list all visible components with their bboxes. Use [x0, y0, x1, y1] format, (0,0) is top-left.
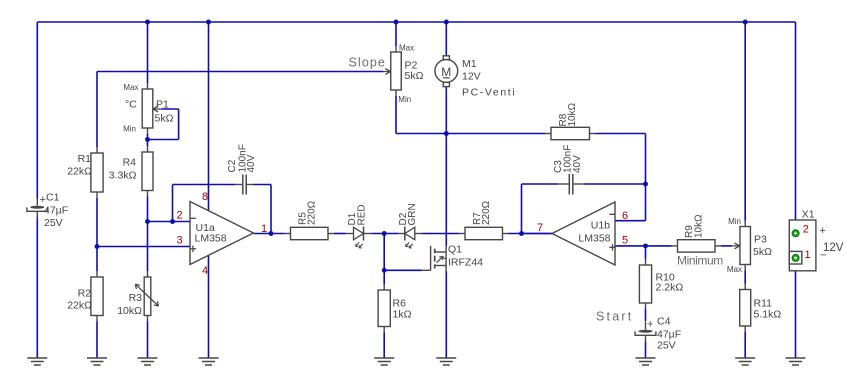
- resistor R6: [383, 284, 385, 290]
- wire Q1 source to ground: [445, 271, 447, 358]
- wire rail to P1: [147, 22, 149, 83]
- svg-text:M: M: [441, 65, 451, 79]
- ground R6: [374, 357, 394, 359]
- svg-text:8: 8: [202, 191, 208, 203]
- svg-text:1: 1: [805, 249, 811, 261]
- pin 2 X1 contact: [792, 230, 799, 237]
- resistor R1: [96, 147, 98, 153]
- svg-text:Start: Start: [596, 310, 633, 324]
- wire R9 to P3 wiper: [721, 245, 732, 247]
- junction rail-M1: [444, 20, 449, 25]
- svg-text:PC-Venti: PC-Venti: [462, 86, 516, 98]
- wire +12V top rail: [37, 21, 795, 23]
- capacitor C1: [36, 198, 38, 206]
- wire D2 to R7: [422, 233, 459, 235]
- svg-text:R4: R4: [123, 157, 137, 169]
- connector X1: [789, 220, 816, 271]
- wire rail to P3: [744, 22, 746, 221]
- wire R6 to ground: [383, 333, 385, 359]
- wire C3 left: [521, 184, 523, 234]
- svg-text:3.3kΩ: 3.3kΩ: [109, 170, 137, 182]
- junction P1 wiper-min: [145, 137, 150, 142]
- svg-text:1: 1: [261, 223, 267, 235]
- junction M1-R8 row: [444, 131, 449, 136]
- wire X1 pin1 to ground: [795, 261, 797, 358]
- wire gate node: [384, 269, 421, 271]
- svg-text:−: −: [820, 250, 826, 262]
- wire C3 right: [584, 183, 646, 185]
- resistor R3: [147, 271, 149, 277]
- ground R3: [138, 357, 158, 359]
- svg-text:GRN: GRN: [407, 203, 418, 225]
- resistor R7: [459, 233, 465, 235]
- resistor R4: [147, 146, 149, 152]
- svg-text:220Ω: 220Ω: [307, 200, 318, 225]
- svg-text:6: 6: [622, 210, 628, 222]
- svg-text:25V: 25V: [44, 217, 63, 229]
- diode D2: [399, 233, 405, 235]
- svg-text:+: +: [820, 225, 826, 237]
- svg-text:12V: 12V: [462, 70, 481, 82]
- svg-text:Slope: Slope: [349, 56, 386, 70]
- capacitor C2: [235, 184, 243, 186]
- svg-text:Min: Min: [123, 125, 136, 134]
- resistor R2: [96, 271, 98, 277]
- junction R4-R3 pin2 node: [145, 219, 150, 224]
- junction D1-D2 cathodes: [382, 231, 387, 236]
- ground X1: [786, 357, 806, 359]
- wire U1a pin2: [148, 221, 191, 223]
- svg-text:1kΩ: 1kΩ: [393, 309, 412, 321]
- junction gate node: [382, 268, 387, 273]
- svg-text:P3: P3: [754, 234, 767, 246]
- junction R1-R2 pin3 node: [95, 244, 100, 249]
- svg-text:5kΩ: 5kΩ: [753, 246, 772, 258]
- svg-text:LM358: LM358: [195, 233, 227, 245]
- transistor Q1: [422, 269, 431, 271]
- svg-text:5.1kΩ: 5.1kΩ: [754, 308, 782, 320]
- wire U1a pin3: [97, 246, 190, 248]
- wire P1 to R4: [147, 134, 149, 146]
- wire R4 to R3: [147, 197, 149, 272]
- ground C4: [636, 357, 656, 359]
- potentiometer P1: [147, 83, 149, 89]
- wire R7 to node: [509, 233, 553, 235]
- diode D1: [346, 233, 354, 235]
- junction U1a out-C2: [269, 231, 274, 236]
- svg-text:+: +: [647, 319, 653, 331]
- wire C1 column: [36, 22, 38, 199]
- resistor R10: [645, 259, 647, 265]
- wire U1a pin4 to ground: [208, 256, 210, 358]
- svg-text:47µF: 47µF: [44, 205, 68, 217]
- wire R8 to pin6 column: [596, 133, 646, 135]
- svg-text:C4: C4: [657, 316, 671, 328]
- ground C1: [27, 357, 47, 359]
- svg-text:5kΩ: 5kΩ: [405, 70, 424, 82]
- wire rail to M1: [445, 22, 447, 56]
- wire C2 feedback left: [172, 185, 174, 222]
- svg-text:U1b: U1b: [591, 220, 610, 232]
- svg-text:R3: R3: [129, 292, 143, 304]
- svg-text:2.2kΩ: 2.2kΩ: [656, 282, 684, 294]
- svg-text:X1: X1: [802, 209, 815, 221]
- junction C3-pin6: [643, 182, 648, 187]
- svg-text:40V: 40V: [572, 155, 583, 173]
- wire U1b pin6: [615, 220, 646, 222]
- resistor R11: [744, 284, 746, 290]
- wire R2 to ground: [96, 322, 98, 359]
- ground U1a pin4: [199, 357, 219, 359]
- svg-text:2: 2: [177, 210, 183, 222]
- junction rail-P2: [394, 20, 399, 25]
- svg-text:M1: M1: [462, 58, 477, 70]
- svg-text:C1: C1: [46, 192, 60, 204]
- wire node to R6: [383, 234, 385, 285]
- svg-text:Minimum: Minimum: [677, 254, 723, 268]
- svg-text:Max: Max: [123, 83, 138, 92]
- wire R5 to D1: [334, 233, 346, 235]
- potentiometer P3: [744, 221, 746, 227]
- svg-text:40V: 40V: [246, 154, 257, 172]
- svg-text:R2: R2: [78, 288, 92, 300]
- wire U1b pin5 to R9: [615, 245, 672, 247]
- wire P2 to R8 row: [395, 96, 397, 134]
- wire pin5 node to R10: [645, 246, 647, 259]
- ground R11: [735, 357, 755, 359]
- wire R1 to node A: [96, 198, 98, 271]
- svg-text:C2: C2: [227, 159, 238, 172]
- op-amp U1a: [190, 202, 254, 265]
- wire Slope net: [96, 72, 98, 148]
- motor M1: [443, 56, 449, 60]
- wire R11 to ground: [744, 332, 746, 358]
- wire rail to X1 pin2: [795, 22, 797, 230]
- wire U1a output: [254, 233, 285, 235]
- svg-text:IRFZ44: IRFZ44: [448, 257, 483, 269]
- junction pin5-R10: [643, 243, 648, 248]
- svg-text:5kΩ: 5kΩ: [155, 113, 174, 125]
- svg-text:220Ω: 220Ω: [481, 200, 492, 225]
- op-amp U1b: [552, 202, 615, 265]
- junction rail-pin8: [206, 20, 211, 25]
- wire D1 D2 node: [372, 233, 399, 235]
- svg-text:10kΩ: 10kΩ: [567, 102, 578, 126]
- junction pin2-C2: [170, 219, 175, 224]
- svg-text:LM358: LM358: [578, 233, 610, 245]
- wire P1 wiper loop: [162, 108, 179, 110]
- svg-text:RED: RED: [357, 204, 368, 225]
- svg-text:3: 3: [177, 235, 183, 247]
- ground R2: [87, 357, 107, 359]
- svg-text:4: 4: [202, 265, 208, 277]
- potentiometer P2: [395, 46, 397, 52]
- junction R7-C3-U1b: [519, 231, 524, 236]
- svg-text:5: 5: [622, 235, 628, 247]
- wire U1b output: [522, 233, 553, 235]
- svg-text:Min: Min: [728, 217, 741, 226]
- svg-text:7: 7: [537, 222, 543, 234]
- resistor R8: [545, 133, 551, 135]
- resistor R5: [285, 233, 291, 235]
- ground Q1 source: [436, 357, 456, 359]
- junction rail-P1: [145, 20, 150, 25]
- svg-text:10kΩ: 10kΩ: [117, 305, 142, 317]
- capacitor C3: [558, 183, 569, 185]
- svg-text:R1: R1: [78, 153, 92, 165]
- svg-text:2: 2: [803, 224, 809, 236]
- wire rail to P2: [395, 22, 397, 46]
- svg-text:22kΩ: 22kΩ: [67, 166, 92, 178]
- svg-text:Max: Max: [727, 265, 742, 274]
- svg-text:°C: °C: [125, 99, 137, 111]
- wire P3 to R11: [744, 271, 746, 284]
- svg-text:22kΩ: 22kΩ: [67, 300, 92, 312]
- wire U1a pin8 supply: [208, 22, 210, 211]
- svg-text:P1: P1: [156, 99, 169, 111]
- wire R3 to ground: [147, 322, 149, 359]
- wire C2 feedback right: [254, 184, 272, 186]
- junction rail-P3: [743, 20, 748, 25]
- svg-text:25V: 25V: [657, 340, 676, 352]
- resistor R9: [672, 245, 678, 247]
- capacitor C4: [645, 322, 647, 330]
- svg-text:Min: Min: [398, 95, 411, 104]
- wire C4 to ground: [645, 342, 647, 359]
- wire R10 to C4: [645, 309, 647, 322]
- svg-text:Max: Max: [399, 44, 414, 53]
- pin 1 X1 contact: [792, 254, 799, 261]
- svg-text:Q1: Q1: [448, 244, 462, 256]
- svg-text:10kΩ: 10kΩ: [694, 214, 705, 238]
- wire M1 to Q1 drain: [445, 87, 447, 246]
